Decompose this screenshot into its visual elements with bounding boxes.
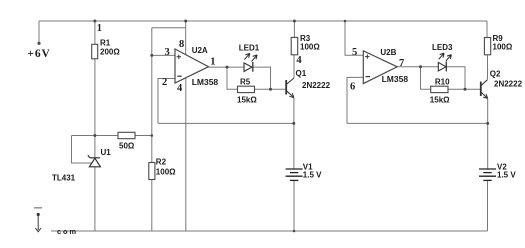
svg-text:TL431: TL431 — [52, 173, 76, 182]
svg-text:15kΩ: 15kΩ — [237, 96, 257, 105]
wire R2 bottom to rail — [151, 180, 153, 232]
wire bottom ground rail — [51, 230, 488, 232]
resistor 50 ohm — [118, 132, 135, 150]
wire U2B pin5 drop — [345, 21, 363, 55]
svg-text:LED3: LED3 — [432, 43, 453, 52]
svg-text:3: 3 — [165, 47, 170, 58]
wire R3 bottom to Q1 collector — [293, 55, 295, 78]
svg-text:U2B: U2B — [380, 48, 396, 57]
svg-text:Q1: Q1 — [296, 69, 307, 78]
wire LED1 anode — [227, 66, 244, 68]
wire +6V stub — [38, 21, 40, 43]
svg-text:LM358: LM358 — [382, 74, 409, 84]
resistor R10 — [430, 77, 450, 104]
transistor Q2 — [481, 80, 488, 99]
svg-text:2: 2 — [162, 77, 167, 88]
LED3 — [432, 43, 453, 72]
resistor R2 — [149, 158, 176, 180]
svg-text:200Ω: 200Ω — [100, 48, 120, 57]
svg-text:+6V: +6V — [27, 48, 50, 60]
svg-text:Q2: Q2 — [490, 69, 501, 78]
wire U2A pin8 — [185, 21, 187, 54]
wire Q1 emitter to V1 — [293, 98, 295, 169]
transistor Q1 — [286, 78, 294, 98]
svg-text:com: com — [57, 227, 78, 236]
wire U2A pin2 input — [158, 79, 175, 124]
wire R9 top — [486, 21, 488, 38]
svg-text:1.5 V: 1.5 V — [303, 170, 322, 179]
op-amp U2A — [162, 39, 218, 94]
svg-text:100Ω: 100Ω — [493, 42, 513, 51]
battery V1 — [286, 169, 303, 180]
svg-text:7: 7 — [399, 58, 404, 69]
wire V1 to bottom rail — [293, 181, 295, 231]
svg-text:LED1: LED1 — [239, 43, 260, 52]
wire U2B output — [397, 66, 420, 68]
wire V2 to bottom rail — [487, 181, 489, 231]
resistor R3 — [291, 34, 320, 66]
wire LED3 cathode — [446, 67, 465, 90]
LED1 — [239, 43, 260, 71]
wire U2B feedback to Q2 emitter — [347, 122, 488, 124]
wire R5 left — [227, 67, 238, 89]
svg-text:LM358: LM358 — [192, 77, 219, 87]
TL431 U1 — [88, 155, 101, 167]
svg-text:4: 4 — [296, 55, 302, 66]
wire R10 left — [421, 67, 431, 90]
wire 50ohm left and TL431 ref — [72, 136, 119, 164]
svg-text:1: 1 — [97, 23, 102, 34]
wire U2A feedback to Q1 emitter — [158, 122, 294, 124]
svg-text:50Ω: 50Ω — [119, 141, 135, 150]
wire R1 bottom to TL431 cathode — [94, 59, 96, 158]
wire LED3 anode — [421, 66, 439, 68]
svg-text:100Ω: 100Ω — [156, 167, 176, 176]
wire Q2 emitter to V2 — [487, 99, 489, 169]
wire U2A pin4 ground — [185, 78, 187, 231]
svg-text:R2: R2 — [156, 158, 167, 167]
svg-text:4: 4 — [177, 83, 183, 94]
wire U2B pin6 input — [347, 77, 363, 123]
wire node1 R1 top — [94, 21, 96, 44]
svg-text:R10: R10 — [435, 77, 450, 86]
svg-text:15kΩ: 15kΩ — [430, 96, 450, 105]
svg-text:5: 5 — [352, 47, 357, 58]
battery V2 — [479, 169, 496, 180]
svg-text:100Ω: 100Ω — [300, 42, 320, 51]
wire R3 top — [293, 21, 295, 37]
svg-text:R5: R5 — [240, 77, 251, 86]
resistor R5 — [237, 77, 257, 104]
svg-text:1: 1 — [210, 57, 215, 68]
svg-text:6: 6 — [350, 82, 355, 93]
wire jog y28 — [152, 27, 186, 29]
svg-text:1.5 V: 1.5 V — [497, 170, 516, 179]
wire R5 right to Q1 base — [255, 88, 287, 90]
resistor R1 — [92, 39, 121, 59]
svg-text:2N2222: 2N2222 — [494, 80, 523, 89]
wire U2A pin3 input — [152, 54, 175, 56]
ground symbol — [34, 207, 42, 209]
wire TL431 anode to bottom rail — [94, 167, 96, 231]
svg-text:U1: U1 — [101, 148, 112, 157]
op-amp U2B — [350, 47, 408, 93]
svg-text:U2A: U2A — [192, 46, 208, 55]
svg-text:8: 8 — [179, 39, 184, 50]
wire U2A output — [209, 66, 228, 68]
wire R9 bottom to Q2 collector — [487, 55, 489, 79]
wire top +6V rail — [39, 20, 487, 22]
wire 50ohm right — [135, 135, 152, 137]
wire R10 right to Q2 base — [448, 88, 481, 90]
resistor R9 — [484, 34, 512, 55]
wire vertical bus x152 top — [151, 28, 153, 163]
wire LED1 cathode — [253, 67, 271, 89]
svg-text:2N2222: 2N2222 — [302, 81, 331, 90]
svg-text:R1: R1 — [100, 39, 111, 48]
